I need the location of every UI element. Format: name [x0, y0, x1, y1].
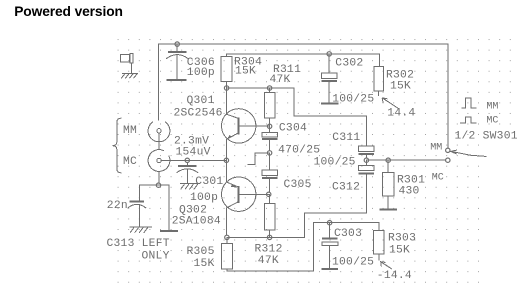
svg-text:Q301: Q301: [187, 95, 215, 107]
svg-text:15K: 15K: [194, 258, 215, 270]
svg-text:15K: 15K: [389, 245, 410, 257]
svg-text:R305: R305: [187, 246, 215, 258]
svg-text:2SC2546: 2SC2546: [174, 107, 223, 119]
svg-text:1/2 SW301: 1/2 SW301: [455, 130, 518, 142]
svg-text:100p: 100p: [190, 192, 218, 204]
svg-text:MC: MC: [432, 173, 444, 184]
svg-text:100p: 100p: [187, 67, 215, 79]
svg-text:100/25: 100/25: [314, 156, 356, 168]
svg-text:C311: C311: [332, 132, 360, 144]
svg-text:R312: R312: [255, 244, 283, 256]
svg-text:MM: MM: [430, 142, 442, 153]
svg-text:-14.4: -14.4: [377, 270, 412, 282]
svg-text:47K: 47K: [270, 74, 291, 86]
svg-text:C305: C305: [284, 179, 312, 191]
svg-text:MC: MC: [123, 156, 137, 168]
svg-text:R301: R301: [397, 174, 425, 186]
svg-text:430: 430: [399, 186, 420, 198]
svg-text:470/25: 470/25: [278, 145, 320, 157]
svg-text:2.3mV: 2.3mV: [174, 135, 209, 147]
svg-text:22n: 22n: [107, 200, 128, 212]
svg-text:2SA1084: 2SA1084: [172, 216, 221, 228]
svg-text:100/25: 100/25: [332, 94, 374, 106]
svg-text:C302: C302: [335, 57, 363, 69]
svg-text:C303: C303: [334, 228, 362, 240]
svg-text:Powered version: Powered version: [14, 4, 123, 19]
svg-text:R303: R303: [388, 233, 416, 245]
svg-text:47K: 47K: [258, 255, 279, 267]
svg-text:C304: C304: [279, 123, 307, 135]
svg-text:ONLY: ONLY: [142, 250, 170, 262]
svg-text:MM: MM: [486, 101, 498, 112]
svg-text:100/25: 100/25: [332, 257, 374, 269]
svg-text:14.4: 14.4: [387, 108, 415, 120]
svg-text:MC: MC: [486, 116, 498, 127]
svg-text:C312: C312: [332, 181, 360, 193]
svg-text:15K: 15K: [390, 81, 411, 93]
svg-text:MM: MM: [123, 125, 137, 137]
svg-text:15K: 15K: [235, 66, 256, 78]
svg-text:154uV: 154uV: [176, 147, 211, 159]
svg-text:C313 LEFT: C313 LEFT: [107, 238, 170, 250]
svg-text:C301: C301: [195, 176, 223, 188]
